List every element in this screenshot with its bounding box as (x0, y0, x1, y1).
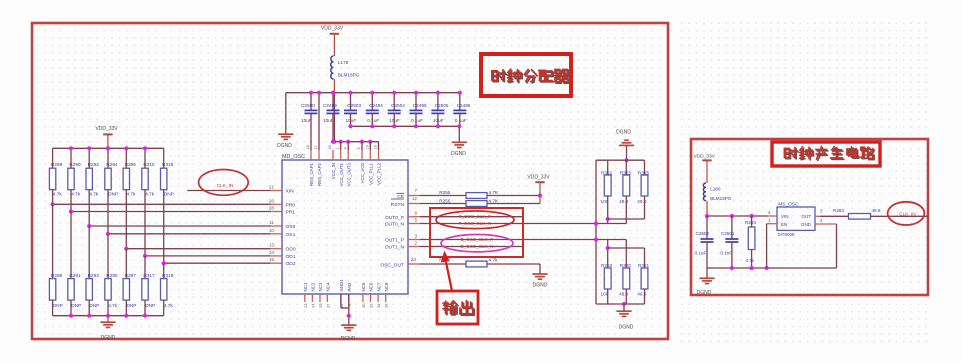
title box 时钟分配器 (481, 54, 571, 96)
wire (164, 262, 271, 264)
svg-text:3: 3 (414, 233, 417, 238)
svg-text:5: 5 (414, 217, 417, 222)
svg-text:OD0: OD0 (286, 247, 296, 253)
wire (625, 196, 627, 224)
svg-text:R292: R292 (88, 162, 100, 167)
svg-text:11: 11 (269, 220, 274, 225)
svg-text:GND: GND (801, 222, 812, 227)
svg-text:24: 24 (311, 304, 315, 308)
svg-text:C2503: C2503 (347, 103, 361, 108)
pin 1 EN (767, 223, 777, 225)
node (143, 314, 147, 318)
net label CLK_IN (199, 170, 249, 196)
wire (393, 113, 395, 126)
svg-text:DGND: DGND (451, 151, 466, 157)
pin 23 OSC_OUT (408, 263, 420, 265)
svg-text:C2501: C2501 (721, 231, 735, 236)
wire (487, 263, 540, 265)
svg-text:CLK_IN: CLK_IN (217, 183, 234, 189)
svg-text:T_OSC_CLK_P: T_OSC_CLK_P (459, 214, 491, 219)
svg-text:R256: R256 (439, 198, 451, 203)
svg-text:28: 28 (269, 206, 275, 211)
pin 31 NC6 (370, 294, 372, 302)
svg-text:OS1: OS1 (286, 232, 296, 238)
wire (871, 215, 929, 217)
svg-text:R317: R317 (143, 273, 155, 278)
right schematic frame (691, 139, 928, 295)
resistor R297 (125, 249, 127, 279)
inductor L180 (703, 183, 706, 201)
svg-text:OUT1_N: OUT1_N (385, 245, 405, 251)
svg-text:26: 26 (269, 198, 275, 203)
wire (361, 142, 363, 150)
resistor R291 (70, 212, 72, 279)
svg-text:4.7k: 4.7k (71, 192, 81, 197)
svg-text:R291: R291 (69, 273, 81, 278)
wire (707, 267, 837, 269)
wire (286, 92, 460, 94)
svg-text:VDD_33V: VDD_33V (527, 174, 550, 180)
pin 4 VCC_OUT2 (347, 150, 349, 160)
pin 14 OD1 (271, 255, 283, 257)
wire (340, 142, 342, 150)
svg-text:NC1: NC1 (303, 282, 308, 291)
svg-text:DNP: DNP (71, 303, 81, 308)
svg-text:0.1uF: 0.1uF (411, 118, 423, 123)
svg-text:4.7k: 4.7k (745, 258, 754, 263)
svg-text:7: 7 (414, 188, 417, 193)
pin 29 GND1 (340, 294, 342, 302)
resistor R284 (751, 216, 753, 227)
resistor R322 (607, 160, 609, 175)
wire (53, 315, 164, 317)
svg-text:25: 25 (319, 304, 323, 308)
resistor R295 (107, 234, 109, 279)
svg-text:R297: R297 (125, 273, 137, 278)
wire (420, 203, 466, 205)
svg-text:T_OSC_CLK_N: T_OSC_CLK_N (459, 221, 492, 226)
wire (332, 113, 334, 141)
wire (347, 142, 349, 150)
pin 12 RSTN (408, 203, 420, 205)
svg-text:NC3: NC3 (318, 282, 323, 291)
node (69, 314, 73, 318)
svg-text:19: 19 (366, 145, 370, 149)
svg-text:21: 21 (269, 185, 275, 190)
svg-text:49.9: 49.9 (619, 292, 629, 297)
svg-text:31: 31 (370, 304, 374, 308)
svg-text:R288: R288 (51, 162, 63, 167)
svg-text:0.1uF: 0.1uF (455, 118, 467, 123)
node (87, 314, 91, 318)
svg-text:18: 18 (306, 145, 310, 149)
capacitor C2500 (310, 93, 312, 111)
svg-text:49.9: 49.9 (619, 199, 629, 204)
wire (420, 263, 466, 265)
svg-text:OD2: OD2 (286, 261, 296, 267)
capacitor C2501 (731, 216, 733, 239)
wire OUT0_N (420, 223, 626, 225)
wire (596, 303, 645, 305)
svg-text:R321: R321 (638, 263, 650, 268)
wire (608, 247, 645, 249)
svg-text:R320: R320 (620, 263, 632, 268)
resistor R323 (625, 160, 627, 175)
svg-text:C2495: C2495 (413, 103, 427, 108)
svg-text:R319: R319 (162, 273, 174, 278)
svg-text:PR0: PR0 (286, 202, 296, 208)
svg-text:DGND: DGND (616, 130, 631, 136)
svg-text:VIN: VIN (781, 214, 789, 219)
pin 15 OD2 (271, 262, 283, 264)
svg-text:33: 33 (385, 304, 389, 308)
resistor R293 (88, 226, 90, 279)
svg-text:R293: R293 (88, 273, 100, 278)
svg-text:4.7k: 4.7k (489, 258, 499, 263)
svg-text:C2500: C2500 (301, 103, 315, 108)
svg-text:L180: L180 (710, 186, 721, 191)
wire (420, 195, 466, 197)
callout box 输出 (437, 291, 478, 324)
wire (371, 113, 373, 126)
svg-text:SiT8008: SiT8008 (778, 232, 796, 237)
wire (71, 211, 271, 213)
svg-text:B_OSC_CLK_P: B_OSC_CLK_P (461, 237, 494, 242)
svg-text:VCC_OUT1: VCC_OUT1 (339, 162, 344, 186)
resistor R316 (144, 148, 146, 168)
svg-text:R284: R284 (745, 220, 756, 225)
svg-text:VDD_33V: VDD_33V (95, 126, 118, 132)
svg-text:R295: R295 (106, 273, 118, 278)
svg-text:R290: R290 (69, 162, 81, 167)
wire (607, 240, 609, 269)
svg-text:14: 14 (269, 250, 275, 255)
node (332, 140, 336, 144)
svg-text:DGND: DGND (619, 325, 634, 331)
svg-text:DGND: DGND (697, 290, 712, 296)
wire (487, 195, 540, 197)
wire (766, 224, 768, 268)
svg-text:49.9: 49.9 (872, 208, 881, 213)
node (368, 140, 372, 144)
pin 32 NC7 (377, 294, 379, 302)
pin 2 GND (815, 223, 837, 225)
pin 7 CE (408, 195, 420, 197)
inductor L179 (331, 56, 334, 79)
pin 6 OUT0_P (408, 216, 420, 218)
ground DGND (OSC_OUT) (532, 273, 547, 275)
svg-text:RES_CAP2: RES_CAP2 (317, 162, 322, 185)
svg-text:10: 10 (269, 228, 275, 233)
node (106, 146, 110, 150)
svg-text:RES_CAP1: RES_CAP1 (309, 162, 314, 185)
svg-text:OUT: OUT (802, 214, 812, 219)
capacitor C2504 (393, 93, 395, 111)
svg-text:R255: R255 (439, 190, 451, 195)
annotation ellipse (T pair) (436, 211, 514, 229)
svg-text:VDD_33V: VDD_33V (694, 154, 716, 160)
svg-text:NC8: NC8 (384, 282, 389, 291)
wire (108, 233, 271, 235)
node (124, 314, 128, 318)
capacitor C2505 (437, 93, 439, 111)
svg-text:R294: R294 (106, 162, 118, 167)
svg-text:13: 13 (269, 243, 275, 248)
node (346, 140, 350, 144)
pin 10 OS1 (271, 233, 283, 235)
wire (836, 224, 838, 268)
wire OUT1_N (420, 246, 523, 248)
pin 25 NC3 (319, 294, 321, 302)
svg-text:9: 9 (357, 147, 361, 149)
wire (369, 142, 371, 150)
pin 27 NC4 (326, 294, 328, 302)
pin 13 OD0 (271, 248, 283, 250)
wire (459, 113, 461, 126)
svg-text:49.9: 49.9 (637, 292, 647, 297)
pin 26 VCC_IN (332, 150, 334, 160)
pin 8 PAD (348, 294, 350, 302)
svg-text:VCC_PLL2: VCC_PLL2 (377, 162, 382, 185)
svg-text:2: 2 (414, 240, 417, 245)
capacitor C2494 (371, 93, 373, 111)
svg-text:PAD: PAD (347, 283, 352, 292)
annotation box (outputs) (430, 208, 523, 257)
node (124, 146, 128, 150)
svg-text:R262: R262 (601, 263, 613, 268)
wire (89, 225, 270, 227)
pin 2 OUT1_N (408, 246, 420, 248)
ground DGND (under IC) (348, 294, 350, 325)
svg-text:C2499: C2499 (323, 103, 337, 108)
pin 24 NC2 (311, 294, 313, 302)
capacitor C2499 (332, 93, 334, 111)
wire (487, 203, 540, 205)
wire (145, 255, 271, 257)
resistor R294 (107, 148, 109, 168)
capacitor C2495 (415, 93, 417, 111)
pin 17 RES_CAP2 (318, 150, 320, 160)
node (87, 146, 91, 150)
annotation ellipse (B pair) (441, 235, 513, 252)
pin 1 VCC_OUT1 (340, 150, 342, 160)
pin 28 PR1 (271, 211, 283, 213)
svg-text:NC7: NC7 (376, 282, 381, 291)
node (106, 146, 110, 150)
wire XIN (187, 190, 270, 192)
pin 21 XIN (271, 190, 283, 192)
pin 5 OUT0_N (408, 223, 420, 225)
svg-text:15: 15 (269, 257, 275, 262)
wire (53, 203, 271, 205)
svg-text:C2505: C2505 (435, 103, 449, 108)
svg-text:0.1uF: 0.1uF (367, 118, 379, 123)
svg-text:4.7k: 4.7k (89, 192, 99, 197)
svg-text:R289: R289 (51, 273, 63, 278)
svg-text:26: 26 (328, 145, 332, 149)
svg-text:C2494: C2494 (369, 103, 383, 108)
svg-text:DNP: DNP (164, 192, 174, 197)
svg-text:27: 27 (326, 304, 330, 308)
capacitor C2503 (350, 93, 352, 111)
node (339, 140, 343, 144)
wire (126, 248, 270, 250)
svg-text:32: 32 (377, 304, 381, 308)
svg-text:R318: R318 (162, 162, 174, 167)
svg-text:NC5: NC5 (361, 282, 366, 291)
svg-text:22: 22 (304, 304, 308, 308)
svg-text:R283: R283 (833, 208, 844, 213)
wire (707, 215, 768, 217)
pin 3 OUT (815, 215, 820, 217)
resistor R288 (52, 148, 54, 168)
ground DGND (left bank) (107, 316, 109, 322)
pin 30 NC5 (362, 294, 364, 302)
svg-text:6: 6 (414, 211, 417, 216)
svg-text:DNP: DNP (145, 303, 155, 308)
svg-text:1: 1 (336, 147, 340, 149)
svg-text:23: 23 (411, 257, 417, 262)
svg-text:17: 17 (314, 145, 318, 149)
resistor R318 (163, 148, 165, 168)
svg-text:NC6: NC6 (369, 282, 374, 291)
svg-text:VCC_OUT2: VCC_OUT2 (346, 162, 351, 186)
svg-text:12: 12 (412, 196, 418, 201)
svg-text:CLK_IN: CLK_IN (899, 212, 915, 217)
svg-text:DGND: DGND (533, 283, 548, 289)
svg-text:VCC_IN: VCC_IN (331, 163, 336, 179)
pin 26 PR0 (271, 203, 283, 205)
svg-text:10uF: 10uF (301, 118, 312, 123)
resistor R290 (70, 148, 72, 168)
node (143, 146, 147, 150)
svg-text:4.7k: 4.7k (164, 303, 174, 308)
svg-text:C2502: C2502 (696, 231, 710, 236)
pin 3 OUT1_P (408, 239, 420, 241)
svg-text:OD1: OD1 (286, 254, 296, 260)
net label CLK_IN (generator output) (888, 202, 925, 225)
svg-text:GND1: GND1 (339, 279, 344, 292)
pin 16 VCC_PLL2 (378, 150, 380, 160)
wire (318, 93, 320, 150)
svg-text:49.9: 49.9 (637, 199, 647, 204)
svg-text:DGND: DGND (277, 143, 292, 149)
svg-text:B_OSC_CLK_N: B_OSC_CLK_N (461, 244, 494, 249)
wire (437, 113, 439, 126)
svg-text:4.7k: 4.7k (108, 303, 118, 308)
resistor R292 (88, 148, 90, 168)
ground DGND (bottom termination) (622, 302, 626, 306)
svg-text:C2504: C2504 (391, 103, 405, 108)
svg-text:OUT1_P: OUT1_P (385, 238, 404, 244)
wire (595, 160, 597, 304)
wire (53, 147, 164, 149)
pin 22 NC1 (304, 294, 306, 302)
wire (608, 218, 645, 220)
title box 时钟产生电路 (772, 142, 880, 166)
svg-text:10uF: 10uF (323, 118, 334, 123)
wire (596, 159, 645, 161)
wire (333, 141, 379, 143)
ground DGND (generator) (706, 268, 708, 278)
wire OUT0_P (420, 216, 523, 218)
pin 11 OS0 (271, 225, 283, 227)
node (360, 140, 364, 144)
pin 9 VCC_VC0 (361, 150, 363, 160)
wire (820, 215, 849, 217)
ground DGND (left of caps) (285, 93, 287, 134)
svg-text:DNP: DNP (108, 192, 118, 197)
node (331, 140, 335, 144)
svg-text:0.1uF: 0.1uF (695, 251, 707, 256)
wire (415, 113, 417, 126)
resistor R289 (52, 204, 54, 278)
svg-text:4: 4 (343, 147, 347, 149)
wire (350, 113, 352, 126)
svg-text:OSC_OUT: OSC_OUT (380, 263, 404, 269)
svg-text:R296: R296 (125, 162, 137, 167)
svg-text:BLM18PG: BLM18PG (710, 196, 732, 201)
svg-text:EN: EN (781, 222, 787, 227)
svg-text:DGND: DGND (341, 336, 356, 342)
svg-text:DNP: DNP (53, 303, 63, 308)
svg-text:OS0: OS0 (286, 224, 296, 230)
wire (333, 93, 335, 142)
svg-text:DNP: DNP (89, 303, 99, 308)
svg-text:4.7k: 4.7k (145, 192, 155, 197)
resistor R296 (125, 148, 127, 168)
wire (378, 142, 380, 150)
wire (625, 240, 627, 269)
svg-text:VCC_VC0: VCC_VC0 (360, 162, 365, 183)
node (69, 146, 73, 150)
svg-text:PR1: PR1 (286, 210, 296, 216)
resistor R325 (644, 160, 646, 175)
svg-text:OUT0_P: OUT0_P (385, 215, 404, 221)
wire OUT1_P (420, 239, 626, 241)
svg-text:DNP: DNP (127, 303, 137, 308)
svg-text:4.7K: 4.7K (489, 198, 500, 203)
svg-text:16: 16 (374, 145, 378, 149)
main schematic frame (32, 23, 668, 339)
pin 18 RES_CAP1 (310, 150, 312, 160)
svg-text:RSTN: RSTN (391, 202, 405, 208)
svg-text:VDD_33V: VDD_33V (321, 26, 344, 32)
pin 4 VIN (768, 215, 777, 217)
svg-text:L179: L179 (338, 60, 349, 65)
capacitor C2502 (706, 216, 708, 239)
pin 19 VCC_PLL1 (369, 150, 371, 160)
capacitor C2496 (459, 93, 461, 111)
pin 33 NC8 (385, 294, 387, 302)
svg-text:OUT0_N: OUT0_N (385, 222, 405, 228)
svg-text:0.1nF: 0.1nF (720, 251, 732, 256)
svg-text:NC4: NC4 (326, 282, 331, 291)
wire (607, 196, 609, 224)
svg-text:4.7K: 4.7K (489, 190, 500, 195)
svg-text:4.7k: 4.7k (53, 192, 63, 197)
resistor R317 (144, 256, 146, 279)
svg-text:XIN: XIN (286, 189, 295, 195)
svg-text:R316: R316 (143, 162, 155, 167)
svg-text:4.7k: 4.7k (127, 192, 137, 197)
resistor R319 (163, 263, 165, 278)
svg-text:NC2: NC2 (311, 282, 316, 291)
svg-text:VCC_PLL1: VCC_PLL1 (369, 162, 374, 185)
ground DGND (right of caps) (458, 126, 460, 142)
svg-text:BLM18PG: BLM18PG (338, 72, 360, 77)
svg-text:30: 30 (362, 304, 366, 308)
